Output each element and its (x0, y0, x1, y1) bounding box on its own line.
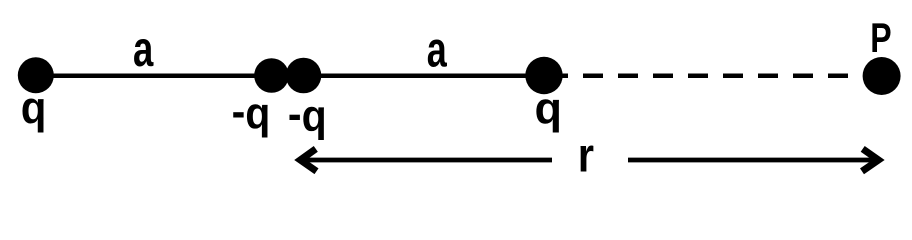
svg-text:q: q (302, 91, 327, 141)
dimension arrow left half: shaft (299, 158, 552, 163)
dimension arrow right half: arrowhead pointing right (862, 149, 879, 171)
svg-text:a: a (427, 23, 448, 78)
dimension arrow right half: shaft (628, 158, 879, 163)
svg-text:q: q (535, 83, 563, 133)
svg-text:-: - (232, 87, 246, 137)
charge -q (left dot of middle pair) (254, 58, 289, 93)
wire: dashed line from right charge q to point P (548, 73, 866, 78)
point P dot (863, 57, 901, 95)
svg-text:q: q (245, 88, 270, 138)
charge q (left dot) (18, 57, 54, 93)
svg-text:-: - (288, 90, 302, 140)
charge -q (right dot of middle pair) (286, 58, 322, 94)
charge q (right dot) (525, 57, 562, 94)
dimension arrow left half: arrowhead pointing left (300, 149, 316, 171)
svg-text:r: r (578, 127, 594, 182)
svg-text:q: q (21, 83, 47, 134)
wire: solid line joining the four charges (36, 73, 560, 78)
svg-text:P: P (870, 14, 891, 61)
svg-text:a: a (133, 21, 154, 77)
